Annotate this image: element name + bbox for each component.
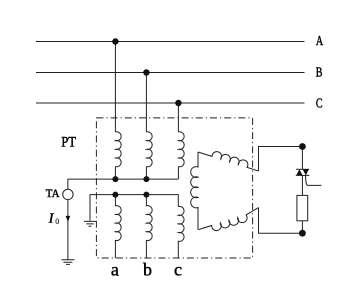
node: damping branch top — [299, 143, 306, 150]
svg-text:0: 0 — [55, 217, 59, 226]
node: phase A tap junction — [112, 38, 118, 44]
label A — [316, 32, 323, 48]
svg-text:B: B — [316, 64, 323, 80]
svg-text:c: c — [174, 260, 182, 280]
triac gate lead — [306, 175, 322, 185]
node: phase C tap junction — [175, 100, 181, 106]
PT primary winding phase A — [115, 132, 121, 167]
node: secondary bus junction b — [143, 192, 149, 198]
triac Q left triangle — [296, 169, 302, 175]
node: neutral bus junction a — [112, 176, 118, 182]
svg-text:b: b — [143, 260, 152, 280]
ground (TA earth) — [61, 260, 74, 265]
node: secondary bus junction a — [112, 192, 118, 198]
wire: winding B bottom to neutral bus — [145, 167, 147, 180]
wire: delta bottom terminal to damping branch — [259, 208, 303, 234]
node: neutral bus junction b — [143, 176, 149, 182]
wire: tap from phase B down to PT winding — [145, 73, 147, 133]
PT secondary winding b — [146, 195, 152, 258]
neutral bus of PT primaries to TA — [68, 179, 178, 189]
label B — [316, 64, 323, 80]
svg-text:TA: TA — [46, 187, 60, 200]
PT secondary winding a — [115, 195, 121, 258]
open-delta top side winding — [198, 152, 259, 171]
svg-text:C: C — [316, 95, 323, 111]
wire: delta top terminal to damping branch — [259, 147, 303, 172]
label PT — [61, 134, 76, 150]
triac top bar — [296, 168, 309, 170]
wire: TA to earth — [67, 200, 69, 260]
svg-text:a: a — [111, 260, 119, 280]
PT primary winding phase C — [178, 132, 184, 167]
open-delta bottom side winding — [198, 208, 258, 231]
current transformer TA circle — [63, 189, 73, 199]
arrow: I0 current direction — [66, 216, 71, 222]
open-delta tertiary winding left side — [191, 152, 198, 230]
wire: resistor to bottom node — [301, 221, 303, 233]
PT primary winding phase B — [146, 132, 152, 167]
wire: tap from phase A down to PT winding — [114, 42, 116, 133]
resistor R (damping) — [297, 195, 308, 220]
secondary star bus with earth drop — [90, 195, 178, 221]
triac Q right triangle — [303, 169, 309, 175]
wire: winding C bottom to neutral bus — [177, 167, 179, 180]
phase bus A — [36, 41, 305, 43]
label C — [316, 95, 323, 111]
triac bottom bar — [296, 174, 310, 176]
PT secondary winding c — [178, 206, 184, 258]
ground (secondary neutral earth) — [84, 221, 96, 226]
wire: winding A bottom to neutral bus — [114, 167, 116, 180]
node: phase B tap junction — [143, 69, 149, 75]
wire: top node down to triac — [301, 147, 303, 170]
node: damping branch bottom — [299, 230, 306, 237]
PT enclosure dash-dot box — [96, 118, 252, 258]
phase bus B — [36, 72, 305, 74]
phase bus C — [36, 102, 305, 104]
svg-text:PT: PT — [61, 134, 76, 150]
wire: triac to resistor — [301, 175, 303, 195]
label TA — [46, 187, 60, 200]
svg-text:A: A — [316, 32, 323, 48]
wire: tap from phase C down to PT winding — [177, 103, 179, 132]
